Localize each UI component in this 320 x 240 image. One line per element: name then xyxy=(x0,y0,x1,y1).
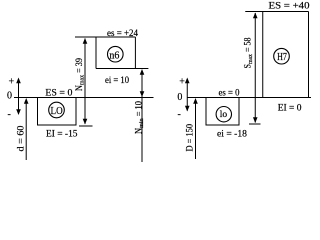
svg-text:es = +24: es = +24 xyxy=(107,29,138,39)
svg-text:n6: n6 xyxy=(109,50,119,61)
svg-text:Nmin = 10: Nmin = 10 xyxy=(134,101,146,134)
svg-text:d = 60: d = 60 xyxy=(17,125,27,151)
svg-text:lo: lo xyxy=(220,110,228,120)
svg-text:EI = -15: EI = -15 xyxy=(46,130,78,140)
svg-text:ei = 10: ei = 10 xyxy=(105,76,129,86)
svg-text:D = 150: D = 150 xyxy=(186,124,196,152)
svg-text:+: + xyxy=(179,77,185,88)
svg-text:-: - xyxy=(178,109,181,120)
svg-text:H7: H7 xyxy=(277,52,287,63)
svg-text:es = 0: es = 0 xyxy=(219,89,240,99)
svg-text:ei = -18: ei = -18 xyxy=(217,130,247,140)
svg-text:Smax = 58: Smax = 58 xyxy=(243,37,255,68)
svg-text:0: 0 xyxy=(177,92,182,103)
svg-text:+: + xyxy=(9,77,15,88)
svg-text:EI = 0: EI = 0 xyxy=(278,104,302,114)
svg-text:ES = 0: ES = 0 xyxy=(45,89,72,99)
svg-text:LO: LO xyxy=(51,105,63,117)
svg-text:-: - xyxy=(8,109,11,120)
svg-text:ES = +40: ES = +40 xyxy=(269,2,310,12)
svg-text:0: 0 xyxy=(7,91,12,102)
svg-text:Nmax = 39: Nmax = 39 xyxy=(74,58,86,91)
